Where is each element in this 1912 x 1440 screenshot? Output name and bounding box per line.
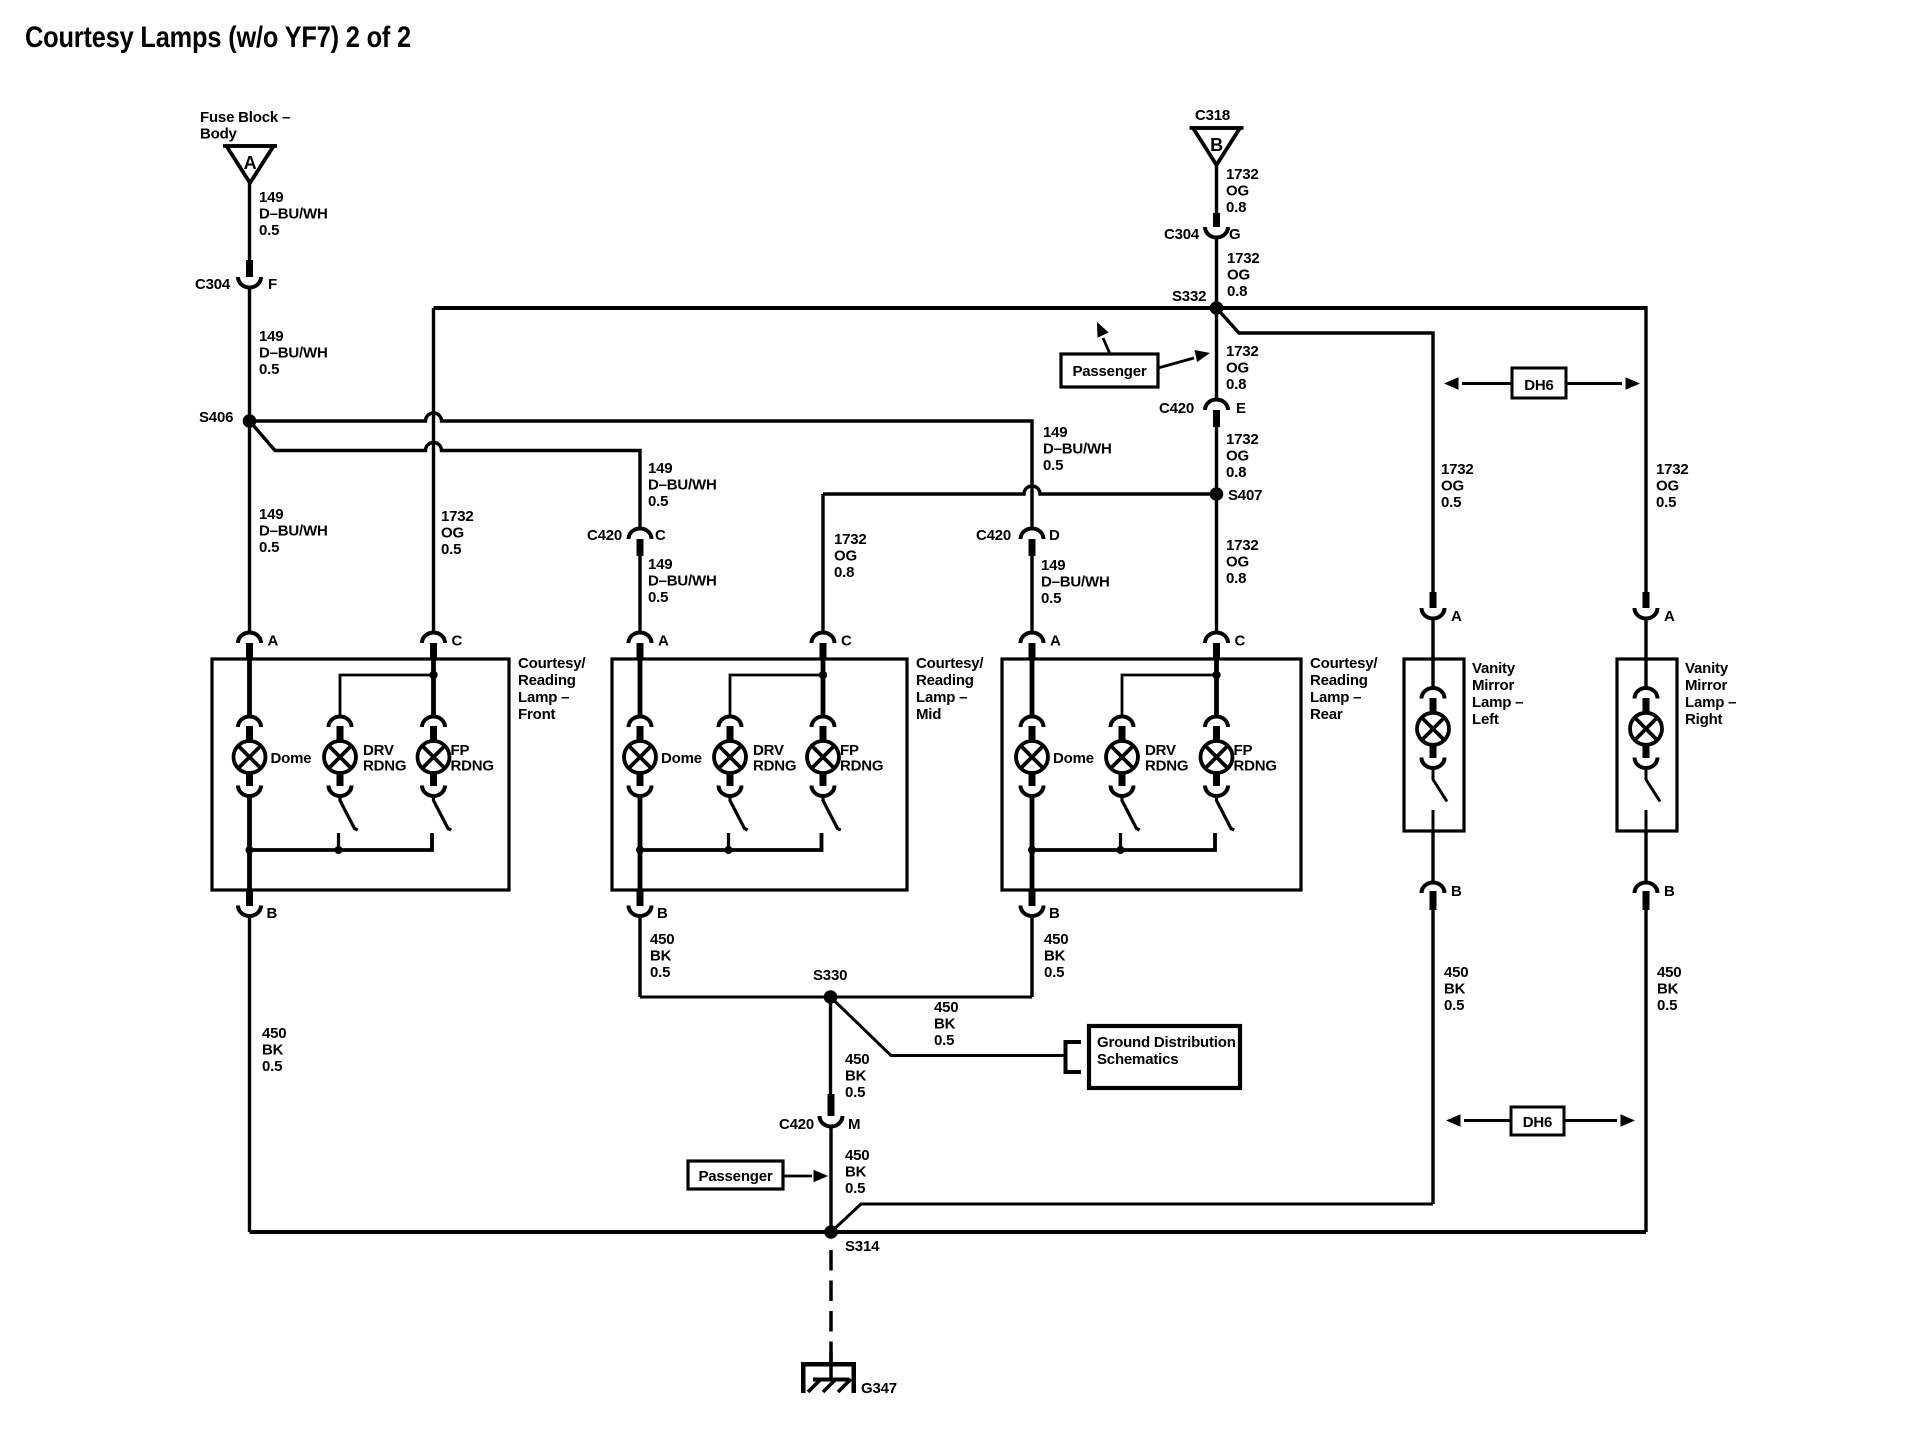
callout box Passenger (bottom) (688, 1161, 783, 1189)
rear lamp module box (1002, 659, 1301, 890)
svg-text:0.5: 0.5 (845, 1084, 865, 1101)
svg-text:Ground Distribution: Ground Distribution (1097, 1034, 1236, 1051)
right vanity wire A to box (1644, 618, 1647, 688)
svg-text:OG: OG (834, 548, 857, 565)
wire 1732 main top bus S332 to both corners (434, 306, 1647, 310)
arrow from Passenger box to bus (1103, 338, 1110, 354)
svg-text:S314: S314 (845, 1238, 880, 1255)
connector C318 B triangle (1190, 126, 1244, 130)
svg-text:Lamp –: Lamp – (916, 689, 967, 706)
wire 149 S406 branch to C420 C (250, 421, 641, 528)
svg-text:RDNG: RDNG (451, 758, 494, 775)
svg-text:D–BU/WH: D–BU/WH (259, 206, 328, 223)
wire 149 C420 D to rear lamp A (1030, 554, 1033, 632)
connector C420 M (828, 1094, 835, 1116)
left vanity wire to B pin (1431, 831, 1434, 882)
wire 1732 S407 to mid lamp C (823, 486, 1217, 494)
wire 1732 S332 to C420 E (1215, 308, 1218, 399)
svg-text:OG: OG (1227, 267, 1250, 284)
svg-text:B: B (657, 905, 668, 922)
svg-text:Courtesy/: Courtesy/ (916, 655, 984, 672)
wire 450 S330 to C420 M (829, 997, 832, 1094)
svg-text:Passenger: Passenger (1072, 363, 1146, 380)
svg-text:B: B (1049, 905, 1060, 922)
svg-text:BK: BK (650, 948, 672, 965)
svg-text:Reading: Reading (1310, 672, 1368, 689)
svg-text:0.8: 0.8 (1226, 376, 1246, 393)
svg-text:DRV: DRV (753, 742, 784, 759)
svg-text:1732: 1732 (1226, 431, 1259, 448)
splice S406 (243, 414, 257, 428)
svg-text:450: 450 (1657, 964, 1681, 981)
svg-text:S332: S332 (1172, 288, 1206, 305)
svg-text:RDNG: RDNG (1145, 758, 1188, 775)
fuse block connector A triangle (223, 144, 277, 148)
arrow from Passenger box to ground wire (784, 1175, 812, 1178)
rear internal ground bus (1032, 833, 1215, 850)
right vanity wire to B pin (1644, 831, 1647, 882)
splice S314 (824, 1225, 838, 1239)
svg-text:Front: Front (518, 706, 556, 723)
wire 450 front lamp B down to bottom bus (248, 915, 251, 1232)
svg-text:BK: BK (1044, 948, 1066, 965)
rear internal wire C to DRV lamp (1122, 675, 1217, 716)
svg-text:S407: S407 (1228, 487, 1262, 504)
svg-text:0.5: 0.5 (1041, 590, 1061, 607)
svg-text:G: G (1229, 226, 1240, 243)
svg-text:Lamp –: Lamp – (1685, 694, 1736, 711)
svg-text:1732: 1732 (1226, 343, 1259, 360)
svg-text:Mirror: Mirror (1685, 677, 1728, 694)
wire 450 C420 M to S314 (829, 1126, 832, 1232)
wire 149 C420 C to mid lamp A (638, 554, 641, 632)
splice S332 (1210, 301, 1224, 315)
svg-text:BK: BK (845, 1164, 867, 1181)
front DRV reading lamp (329, 717, 352, 728)
svg-text:149: 149 (259, 189, 283, 206)
svg-text:0.8: 0.8 (834, 564, 854, 581)
front dome lamp (238, 717, 261, 728)
svg-text:B: B (1210, 135, 1223, 155)
svg-text:C: C (452, 633, 463, 650)
mid FP reading lamp (812, 717, 835, 728)
left vanity wire A to box (1431, 618, 1434, 688)
right vanity lamp (1635, 688, 1658, 699)
svg-text:1732: 1732 (1226, 537, 1259, 554)
svg-text:Courtesy/: Courtesy/ (1310, 655, 1378, 672)
svg-text:BK: BK (1657, 981, 1679, 998)
wire 1732 C318 B to C304 G (1215, 165, 1218, 213)
front internal ground bus (250, 833, 433, 850)
left vanity connector B (1422, 883, 1445, 893)
svg-text:1732: 1732 (1656, 461, 1689, 478)
svg-text:DH6: DH6 (1524, 377, 1553, 394)
svg-text:A: A (1664, 608, 1675, 625)
mid DRV lamp switch (730, 796, 748, 830)
svg-text:Body: Body (200, 126, 238, 143)
svg-text:BK: BK (1444, 981, 1466, 998)
mid connector C (812, 633, 835, 644)
terminal stub at C304 F (246, 260, 253, 277)
svg-text:Right: Right (1685, 711, 1723, 728)
svg-text:Mid: Mid (916, 706, 941, 723)
callout box Passenger (top) (1061, 354, 1158, 387)
front DRV lamp switch (340, 796, 358, 830)
svg-text:RDNG: RDNG (753, 758, 796, 775)
right vanity connector B (1635, 883, 1658, 893)
mid internal wire C to DRV lamp (730, 675, 823, 716)
mid internal ground bus (640, 833, 822, 850)
svg-text:OG: OG (1226, 448, 1249, 465)
wire 450 mid-to-rear ground link through S330 (640, 996, 1032, 999)
svg-text:450: 450 (934, 999, 958, 1016)
svg-text:0.5: 0.5 (262, 1058, 282, 1075)
svg-text:Reading: Reading (916, 672, 974, 689)
rear connector A (1021, 633, 1044, 644)
svg-text:Fuse Block –: Fuse Block – (200, 109, 290, 126)
svg-text:C304: C304 (195, 276, 231, 293)
svg-text:0.5: 0.5 (1044, 964, 1064, 981)
front wire dome lamp to B pin (247, 796, 252, 890)
wire 149 S406 down to front lamp A (248, 421, 251, 632)
wire 149 fuse A to C304 F (248, 183, 251, 260)
front FP lamp switch (434, 796, 452, 830)
ground symbol G347 (801, 1362, 856, 1367)
right vanity module box (1617, 659, 1677, 831)
front wire A pin to dome lamp (247, 660, 252, 716)
left vanity module box (1404, 659, 1464, 831)
wire 450 S314 to left vanity B (831, 1204, 1433, 1232)
mid dome lamp (629, 717, 652, 728)
rear DRV lamp switch (1122, 796, 1140, 830)
svg-text:149: 149 (648, 556, 672, 573)
svg-text:S330: S330 (813, 967, 847, 984)
wire 1732 S332 diagonal to left vanity A (1217, 308, 1434, 592)
right vanity connector A (1643, 592, 1650, 608)
svg-text:Schematics: Schematics (1097, 1051, 1178, 1068)
callout DH6 (bottom) with arrows (1464, 1119, 1511, 1122)
svg-text:DH6: DH6 (1523, 1114, 1552, 1131)
front FP reading lamp (422, 717, 445, 728)
svg-text:C318: C318 (1195, 107, 1230, 124)
svg-text:D–BU/WH: D–BU/WH (648, 477, 717, 494)
svg-text:0.5: 0.5 (259, 361, 279, 378)
svg-text:BK: BK (845, 1068, 867, 1085)
wire 1732 top bus corner down to front lamp C (432, 308, 435, 632)
connector C420 C (629, 529, 652, 540)
front connector A (238, 633, 261, 644)
rear wire C pin to FP lamp (1214, 660, 1219, 716)
svg-text:149: 149 (1041, 557, 1065, 574)
splice S330 (824, 990, 838, 1004)
svg-text:OG: OG (441, 525, 464, 542)
svg-text:B: B (267, 905, 278, 922)
mid connector B (637, 891, 644, 906)
svg-text:0.8: 0.8 (1226, 570, 1246, 587)
svg-text:RDNG: RDNG (363, 758, 406, 775)
wire 1732 S407 down to rear lamp C (1215, 494, 1218, 632)
svg-text:0.5: 0.5 (1043, 457, 1063, 474)
wire 450 mid lamp B to S330 (638, 915, 641, 997)
svg-text:BK: BK (934, 1016, 956, 1033)
svg-text:C: C (1235, 633, 1246, 650)
wire 450 left vanity B down (1431, 908, 1434, 1204)
left vanity lamp switch (1433, 769, 1447, 802)
svg-text:D: D (1049, 527, 1060, 544)
svg-text:OG: OG (1226, 360, 1249, 377)
svg-text:0.5: 0.5 (845, 1180, 865, 1197)
connector C420 D (1021, 529, 1044, 540)
svg-text:Dome: Dome (271, 750, 312, 767)
svg-text:OG: OG (1226, 183, 1249, 200)
svg-text:450: 450 (650, 931, 674, 948)
svg-text:0.5: 0.5 (441, 541, 461, 558)
svg-text:Passenger: Passenger (698, 1168, 772, 1185)
svg-text:Mirror: Mirror (1472, 677, 1515, 694)
svg-text:A: A (244, 153, 257, 173)
connector C304 G (1205, 227, 1228, 238)
wire 450 bottom ground bus (250, 1230, 1647, 1234)
svg-text:F: F (268, 276, 277, 293)
svg-text:OG: OG (1441, 478, 1464, 495)
svg-text:Lamp –: Lamp – (518, 689, 569, 706)
svg-text:0.5: 0.5 (1441, 494, 1461, 511)
svg-text:0.8: 0.8 (1227, 283, 1247, 300)
svg-text:Vanity: Vanity (1472, 660, 1516, 677)
svg-text:BK: BK (262, 1042, 284, 1059)
svg-text:149: 149 (648, 460, 672, 477)
svg-text:149: 149 (1043, 424, 1067, 441)
svg-text:0.8: 0.8 (1226, 199, 1246, 216)
left vanity connector A (1430, 592, 1437, 608)
svg-text:0.5: 0.5 (259, 222, 279, 239)
arrow from Passenger box to left vanity branch (1158, 358, 1194, 368)
svg-text:D–BU/WH: D–BU/WH (1041, 574, 1110, 591)
svg-text:C420: C420 (587, 527, 622, 544)
svg-text:0.8: 0.8 (1226, 464, 1246, 481)
svg-text:Courtesy/: Courtesy/ (518, 655, 586, 672)
svg-text:Courtesy Lamps (w/o YF7) 2 of: Courtesy Lamps (w/o YF7) 2 of 2 (25, 21, 411, 54)
mid wire dome lamp to B pin (638, 796, 643, 890)
wire 450 rear lamp B to S330 (1030, 915, 1033, 997)
svg-text:450: 450 (1044, 931, 1068, 948)
svg-text:DRV: DRV (1145, 742, 1176, 759)
svg-text:0.5: 0.5 (934, 1032, 954, 1049)
svg-text:D–BU/WH: D–BU/WH (648, 573, 717, 590)
svg-text:Dome: Dome (661, 750, 702, 767)
wire 149 S406 branch to C420 D (250, 413, 1033, 528)
wire 149 C304 F to S406 (248, 287, 251, 421)
left vanity lamp (1422, 688, 1445, 699)
svg-text:0.5: 0.5 (648, 493, 668, 510)
svg-text:1732: 1732 (441, 508, 474, 525)
wire 450 right vanity B down (1644, 908, 1647, 1232)
svg-text:FP: FP (451, 742, 470, 759)
svg-text:G347: G347 (861, 1380, 897, 1397)
svg-text:A: A (1451, 608, 1462, 625)
svg-text:FP: FP (840, 742, 859, 759)
splice S407 (1210, 487, 1224, 501)
svg-text:B: B (1664, 883, 1675, 900)
connector C304 F (238, 277, 261, 288)
svg-text:C420: C420 (779, 1116, 814, 1133)
svg-text:RDNG: RDNG (840, 758, 883, 775)
svg-text:Reading: Reading (518, 672, 576, 689)
svg-text:DRV: DRV (363, 742, 394, 759)
rear FP reading lamp (1205, 717, 1228, 728)
svg-text:B: B (1451, 883, 1462, 900)
mid FP lamp switch (823, 796, 841, 830)
svg-text:149: 149 (259, 506, 283, 523)
svg-text:1732: 1732 (1227, 250, 1260, 267)
svg-text:A: A (268, 633, 279, 650)
svg-text:A: A (658, 633, 669, 650)
wire 450 S330 to ground distribution callout (831, 997, 1065, 1056)
front lamp module box (212, 659, 509, 890)
dashed wire S314 to ground G347 (829, 1250, 833, 1362)
svg-text:0.5: 0.5 (648, 589, 668, 606)
wire 1732 C420 E to S407 (1215, 425, 1218, 494)
bracket to ground distribution box (1066, 1042, 1082, 1072)
wire 1732 C304 G to S332 (1215, 237, 1218, 308)
svg-text:C304: C304 (1164, 226, 1200, 243)
svg-text:0.5: 0.5 (1656, 494, 1676, 511)
svg-text:1732: 1732 (834, 531, 867, 548)
svg-text:OG: OG (1656, 478, 1679, 495)
mid wire A pin to dome lamp (638, 660, 643, 716)
front wire C pin to FP lamp (431, 660, 436, 716)
rear dome lamp (1021, 717, 1044, 728)
svg-text:Lamp –: Lamp – (1310, 689, 1361, 706)
svg-text:S406: S406 (199, 409, 233, 426)
front connector B (246, 891, 253, 906)
svg-text:C: C (841, 633, 852, 650)
mid connector A (629, 633, 652, 644)
mid wire C pin to FP lamp (821, 660, 826, 716)
mid lamp module box (612, 659, 907, 890)
right vanity lamp switch (1646, 769, 1660, 802)
svg-text:149: 149 (259, 328, 283, 345)
svg-text:450: 450 (1444, 964, 1468, 981)
wire 1732 right corner down to right vanity A (1644, 306, 1647, 592)
connector C420 E (1205, 400, 1228, 411)
svg-text:Vanity: Vanity (1685, 660, 1729, 677)
svg-text:0.5: 0.5 (259, 539, 279, 556)
callout box Ground Distribution Schematics (1089, 1026, 1240, 1088)
svg-text:C420: C420 (976, 527, 1011, 544)
front connector C (422, 633, 445, 644)
svg-text:Left: Left (1472, 711, 1499, 728)
svg-text:C: C (655, 527, 666, 544)
svg-text:0.5: 0.5 (1657, 997, 1677, 1014)
svg-text:D–BU/WH: D–BU/WH (1043, 441, 1112, 458)
rear wire dome lamp to B pin (1030, 796, 1035, 890)
svg-text:450: 450 (845, 1147, 869, 1164)
svg-text:Rear: Rear (1310, 706, 1343, 723)
svg-text:450: 450 (262, 1025, 286, 1042)
svg-text:0.5: 0.5 (650, 964, 670, 981)
rear DRV reading lamp (1111, 717, 1134, 728)
svg-text:0.5: 0.5 (1444, 997, 1464, 1014)
svg-text:Lamp –: Lamp – (1472, 694, 1523, 711)
svg-text:OG: OG (1226, 554, 1249, 571)
svg-text:450: 450 (845, 1051, 869, 1068)
svg-text:1732: 1732 (1441, 461, 1474, 478)
svg-text:1732: 1732 (1226, 166, 1259, 183)
rear connector C (1205, 633, 1228, 644)
svg-text:FP: FP (1234, 742, 1253, 759)
svg-text:D–BU/WH: D–BU/WH (259, 345, 328, 362)
svg-text:RDNG: RDNG (1234, 758, 1277, 775)
svg-text:C420: C420 (1159, 400, 1194, 417)
rear connector B (1029, 891, 1036, 906)
svg-text:E: E (1236, 400, 1246, 417)
callout DH6 (top) with arrows (1462, 382, 1512, 385)
mid DRV reading lamp (719, 717, 742, 728)
svg-text:M: M (848, 1116, 860, 1133)
svg-text:D–BU/WH: D–BU/WH (259, 523, 328, 540)
svg-text:A: A (1050, 633, 1061, 650)
terminal stub at C304 G (1213, 213, 1220, 227)
rear FP lamp switch (1217, 796, 1235, 830)
svg-text:Dome: Dome (1053, 750, 1094, 767)
rear wire A pin to dome lamp (1030, 660, 1035, 716)
front internal wire C to DRV lamp (340, 675, 434, 716)
